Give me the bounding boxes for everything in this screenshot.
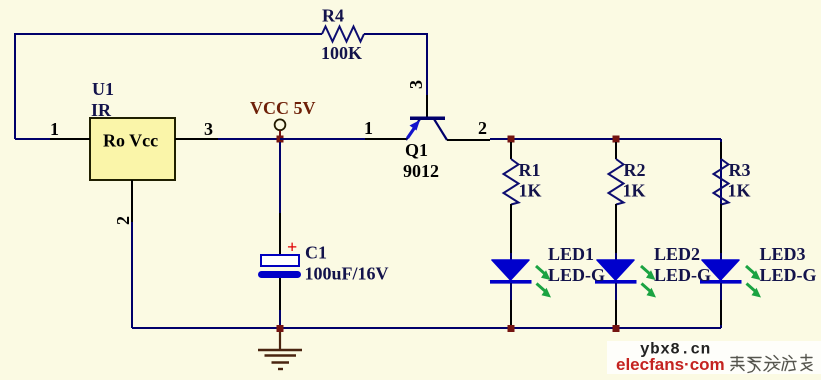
C1 negative pin (279, 278, 281, 310)
svg-text:U1: U1 (92, 79, 114, 99)
Q1 emitter arrow (408, 129, 415, 139)
LED3 anode triangle (702, 260, 739, 280)
svg-text:LED2: LED2 (654, 244, 700, 264)
resistor R2 (609, 142, 646, 205)
LED3 diode symbol (700, 260, 761, 298)
Q1 base bar (410, 117, 445, 121)
Q1 emitter lead (406, 119, 420, 140)
LED1 emission arrow upper (536, 266, 545, 274)
svg-text:1: 1 (364, 118, 373, 138)
LED2 anode triangle (597, 260, 634, 280)
R3 zigzag body (714, 159, 729, 205)
svg-text:3: 3 (406, 80, 426, 89)
svg-text:R3: R3 (729, 160, 751, 180)
IC U1 (IR receiver) body (90, 79, 175, 180)
svg-text:2: 2 (478, 118, 487, 138)
junction R1 top (508, 136, 515, 143)
wire: R1 to LED1 (510, 204, 512, 261)
U1 pin 3 (175, 119, 218, 139)
watermark chinese characters (drawn strokes) (731, 355, 812, 373)
svg-text:IR: IR (91, 100, 112, 120)
LED1 cathode bar (490, 280, 532, 284)
junction LED2 bottom (613, 325, 620, 332)
wire: VCC node to Q1 emitter (280, 138, 365, 140)
resistor R1 (504, 142, 542, 205)
resistor R3 (714, 142, 751, 205)
ground stub (279, 332, 281, 349)
capacitor C1 (electrolytic) (258, 213, 389, 325)
ground (258, 332, 302, 369)
Q1 collector lead (434, 119, 447, 140)
LED3 cathode bar (700, 280, 742, 284)
R2 top pin (615, 142, 617, 159)
power symbol VCC 5V (250, 98, 316, 137)
junction LED1 bottom (508, 325, 515, 332)
svg-text:LED-G: LED-G (654, 265, 711, 285)
svg-text:elecfans·com: elecfans·com (616, 355, 725, 374)
R4 zigzag body (322, 27, 364, 42)
svg-text:VCC 5V: VCC 5V (250, 98, 316, 118)
wire: left vertical to U1 pin 1 (15, 138, 50, 140)
LED2 diode symbol (595, 260, 656, 298)
wire: top feedback loop left segment (15, 34, 322, 139)
C1 positive pin (279, 213, 281, 255)
wire: top feedback right segment to Q1 base (364, 34, 427, 95)
wire: VCC node down to C1 (279, 142, 281, 213)
wire: LED1 cathode to bus (510, 283, 512, 325)
svg-text:1K: 1K (728, 181, 751, 201)
LED3 emission arrow lower (747, 284, 756, 292)
R1 top pin (510, 142, 512, 159)
LED1 emission arrow lower (537, 284, 546, 292)
Q1 collector pin 2 (447, 139, 490, 141)
wire: C1 to ground node (279, 310, 281, 325)
svg-text:1: 1 (50, 119, 59, 139)
svg-text:LED-G: LED-G (760, 265, 817, 285)
svg-text:R1: R1 (519, 160, 541, 180)
U1 body rectangle (90, 118, 175, 180)
svg-text:C1: C1 (305, 243, 327, 263)
svg-text:100uF/16V: 100uF/16V (305, 264, 389, 284)
C1 positive plate (261, 255, 299, 266)
svg-text:2: 2 (113, 216, 133, 225)
ground bar 1 (258, 349, 302, 351)
wire: U1 pin 2 down to ground bus (131, 222, 133, 328)
wire: LED2 cathode to bus (615, 283, 617, 325)
svg-text:100K: 100K (321, 43, 362, 63)
Q1 emitter pin 1 (365, 138, 406, 140)
junction at VCC node (277, 136, 284, 143)
svg-text:3: 3 (204, 119, 213, 139)
LED1 anode triangle (492, 260, 529, 280)
R3 top pin (720, 142, 722, 159)
svg-text:9012: 9012 (403, 161, 439, 181)
LED2 emission arrow upper (641, 266, 650, 274)
ground bar 3 (272, 361, 290, 363)
ground bar 4 (278, 368, 283, 370)
transistor Q1 (PNP 9012) (364, 80, 490, 181)
Q1 base pin 3 (426, 95, 428, 117)
svg-text:1K: 1K (623, 181, 646, 201)
svg-text:+: + (287, 237, 297, 257)
wire: right edge vertical (720, 139, 722, 328)
resistor R4 (321, 6, 364, 64)
U1 pin 1 (50, 119, 90, 139)
watermark band (607, 341, 821, 374)
svg-text:Q1: Q1 (405, 140, 428, 160)
R2 zigzag body (609, 159, 624, 205)
U1 pin 2 (113, 180, 133, 225)
wire: R3 to LED3 (720, 204, 722, 261)
LED2 cathode bar (595, 280, 637, 284)
svg-text:R4: R4 (322, 6, 344, 26)
R1 zigzag body (504, 159, 519, 205)
LED2 emission arrow lower (642, 284, 651, 292)
wire: Q1 collector bus to LED branches (490, 138, 721, 140)
svg-text:LED-G: LED-G (548, 265, 605, 285)
svg-text:Ro Vcc: Ro Vcc (103, 131, 158, 151)
svg-text:LED1: LED1 (548, 244, 594, 264)
wire: R2 to LED2 (615, 204, 617, 261)
wire: LED3 cathode to bus (720, 283, 722, 325)
LED1 diode symbol (490, 260, 551, 298)
junction R2 top (613, 136, 620, 143)
svg-text:1K: 1K (519, 181, 542, 201)
VCC circle (275, 119, 286, 130)
LED3 emission arrow upper (746, 266, 755, 274)
junction ground node (277, 325, 284, 332)
C1 negative plate (258, 271, 301, 278)
wire: U1 pin 3 to VCC node (218, 138, 280, 140)
wire: bottom ground bus (132, 327, 721, 329)
ground bar 2 (265, 354, 297, 356)
svg-text:LED3: LED3 (760, 244, 806, 264)
VCC stub (279, 131, 281, 138)
svg-text:R2: R2 (624, 160, 646, 180)
